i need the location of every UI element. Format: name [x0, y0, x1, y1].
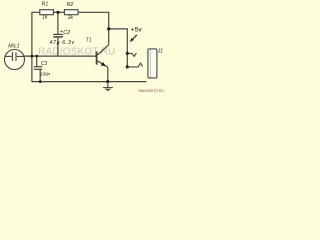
- jack pin 2 contact: [127, 63, 142, 67]
- svg-text:RADIOSKOT.RU: RADIOSKOT.RU: [139, 89, 165, 93]
- node B: C3 top junction: [35, 55, 38, 58]
- resistor R1: [40, 10, 54, 15]
- svg-text:+5v: +5v: [131, 26, 143, 33]
- wire mic to base: [24, 55, 96, 57]
- svg-text:C3: C3: [41, 61, 48, 67]
- svg-text:1k: 1k: [42, 15, 48, 21]
- wire C3 bottom stub: [39, 70, 41, 82]
- jack pin 1 contact: [127, 53, 136, 57]
- svg-text:J1: J1: [157, 48, 164, 54]
- wire C2 stub bottom: [57, 38, 59, 57]
- wire R1 to R2: [53, 11, 64, 13]
- node emitter/ground rail junction: [106, 80, 109, 83]
- svg-text:R2: R2: [67, 2, 74, 8]
- node collector/+5v junction: [107, 27, 110, 30]
- wire R2 to right corner and down to collector: [78, 12, 109, 45]
- wire emitter down: [107, 67, 109, 81]
- wire +5v branch to jack: [109, 29, 128, 67]
- emitter arrow head: [101, 62, 106, 66]
- connector J1 body: [148, 49, 157, 78]
- svg-text:T1: T1: [86, 38, 92, 44]
- svg-text:1k: 1k: [68, 15, 74, 21]
- transistor T1: [97, 45, 109, 68]
- node jack pin1 junction: [126, 52, 129, 55]
- svg-text:C2: C2: [63, 30, 70, 36]
- svg-text:100n: 100n: [40, 71, 51, 76]
- +5v arrow: [132, 35, 137, 40]
- svg-text:47µ 6.3v: 47µ 6.3v: [50, 40, 75, 46]
- node jack pin2 junction: [126, 65, 129, 68]
- node C3 bottom rail junction: [39, 80, 42, 83]
- wire C2 stub top: [57, 12, 59, 34]
- svg-text:R1: R1: [42, 2, 49, 8]
- capacitor C3: [34, 67, 43, 70]
- ground: [103, 82, 113, 91]
- background: [0, 0, 168, 94]
- resistor R2: [64, 10, 78, 15]
- capacitor C2 (polarized): [53, 34, 63, 37]
- wire top rail left segment: [32, 12, 40, 82]
- node junction R1-R2: [56, 11, 59, 14]
- node A: mic/left-vertical junction: [31, 55, 34, 58]
- svg-text:Mic1: Mic1: [8, 44, 19, 50]
- wire C3 top stub: [36, 56, 38, 66]
- microphone Mic1: [5, 50, 25, 70]
- wire bottom ground rail: [32, 81, 147, 83]
